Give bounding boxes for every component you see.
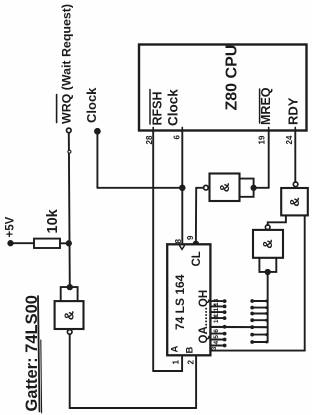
node junction clock <box>180 186 185 191</box>
label Gatter: 74LS00 <box>23 295 41 411</box>
pin ticks inside Z80 bottom edge <box>152 127 154 130</box>
svg-text:WRQ (Wait Request): WRQ (Wait Request) <box>60 4 74 124</box>
wire gate C input down to taps <box>267 272 269 342</box>
right tap posts <box>252 301 267 342</box>
node gate A bracket junction <box>251 186 255 190</box>
wire bottom run to pin2 <box>70 407 196 409</box>
svg-text:Clock: Clock <box>166 89 181 126</box>
pin 6 number <box>173 135 182 140</box>
svg-text:&: & <box>287 197 302 206</box>
svg-text:6: 6 <box>173 135 182 140</box>
svg-text:QA......QH: QA......QH <box>198 290 210 344</box>
svg-text:6: 6 <box>213 329 220 333</box>
gate U2A nand box <box>210 174 240 202</box>
svg-text:B: B <box>185 347 196 354</box>
wire gate A output down to pin9 <box>195 188 197 240</box>
svg-text:A: A <box>170 346 181 353</box>
node WRQ label <box>60 4 74 124</box>
wire Clock horizontal to pin6 <box>97 187 182 189</box>
svg-text:&: & <box>62 311 77 320</box>
svg-text:8: 8 <box>174 239 183 244</box>
node junction resistor/WRQ <box>67 241 71 245</box>
left post dots <box>223 299 227 347</box>
wire QA pin3 to right rail <box>210 350 304 352</box>
svg-text:74 LS 164: 74 LS 164 <box>173 274 187 330</box>
wire +5V to resistor <box>12 242 34 244</box>
pin 28 number <box>145 135 154 144</box>
pin 24 number <box>285 135 294 144</box>
wire RFSH pin28 down <box>152 131 154 372</box>
svg-text:MREQ: MREQ <box>259 87 273 125</box>
svg-text:+5V: +5V <box>5 216 17 237</box>
svg-text:RDY: RDY <box>286 97 301 125</box>
164 pin9 clear bubble <box>193 241 198 244</box>
wire pin2 up from bottom wire <box>195 355 197 408</box>
svg-text:RFSH: RFSH <box>151 91 165 125</box>
wire WRQ vertical <box>69 133 70 287</box>
node small circle on WRQ wire <box>68 150 71 153</box>
svg-text:5: 5 <box>213 335 220 339</box>
svg-text:CL: CL <box>191 251 203 266</box>
gate A input bracket <box>240 179 254 197</box>
gate U2D nand box <box>55 301 84 329</box>
right post dots <box>250 299 268 344</box>
Gatter underline <box>38 296 40 412</box>
node Clock label <box>84 87 99 123</box>
wire MREQ pin19 down <box>268 131 270 188</box>
svg-text:2: 2 <box>187 360 196 365</box>
wire gate B input1 step to gate C <box>268 216 286 226</box>
node +5V label <box>5 216 17 237</box>
svg-text:10: 10 <box>213 315 220 323</box>
wire resistor to WRQ line <box>60 242 69 244</box>
svg-text:Clock: Clock <box>84 87 99 123</box>
wire selected tap jumper QD <box>210 326 267 328</box>
svg-text:Z80 CPU: Z80 CPU <box>224 45 241 111</box>
gate A output bubble <box>204 185 209 190</box>
wire gate D output down <box>69 334 71 408</box>
svg-text:9: 9 <box>186 235 195 240</box>
wire gate A output left <box>196 187 203 189</box>
pin 19 number <box>258 135 267 144</box>
svg-text:&: & <box>217 183 232 192</box>
wire pin19 to gate A <box>254 187 269 189</box>
wire Clock vertical <box>96 133 98 188</box>
wire gate B input2 rail right <box>304 216 306 351</box>
clock wedge pin8 <box>180 246 185 250</box>
node +5V terminal <box>8 241 12 245</box>
gate B output bubble to RDY <box>293 182 298 187</box>
svg-text:24: 24 <box>285 135 294 144</box>
pin 1 number <box>172 360 196 365</box>
gate C input bracket <box>259 258 276 272</box>
wire pin6/clock down to 164 pin8 <box>181 131 183 245</box>
MREQ overline <box>259 89 261 123</box>
RFSH overline <box>149 90 151 125</box>
gate U2D input bracket <box>61 287 78 301</box>
wire RFSH to pin1 <box>153 355 182 371</box>
svg-text:&: & <box>260 239 275 248</box>
svg-text:4: 4 <box>213 341 220 345</box>
svg-text:19: 19 <box>258 135 267 144</box>
WRQ overline <box>56 95 58 123</box>
shift register 74LS164 box <box>167 244 210 355</box>
Q output stubs left posts <box>210 301 224 345</box>
node Clock terminal <box>95 129 100 134</box>
Q pin numbers 13 12 11 10 6 5 4 3 <box>211 298 220 350</box>
node gate C bracket junction <box>266 270 270 274</box>
gate U2B nand box <box>281 188 308 215</box>
svg-text:3: 3 <box>211 346 218 350</box>
gate U2C nand box <box>253 230 283 258</box>
gate D output bubble <box>67 330 72 335</box>
op-amp U1 Z80 CPU box <box>139 45 307 131</box>
node gate D bracket junction <box>68 285 72 289</box>
wire RDY pin24 down <box>294 131 296 183</box>
gate C output bubble <box>265 225 270 230</box>
svg-text:10k: 10k <box>45 208 61 233</box>
node WRQ terminal <box>67 128 72 133</box>
resistor R1 10k <box>34 239 60 248</box>
svg-text:1: 1 <box>172 360 181 365</box>
